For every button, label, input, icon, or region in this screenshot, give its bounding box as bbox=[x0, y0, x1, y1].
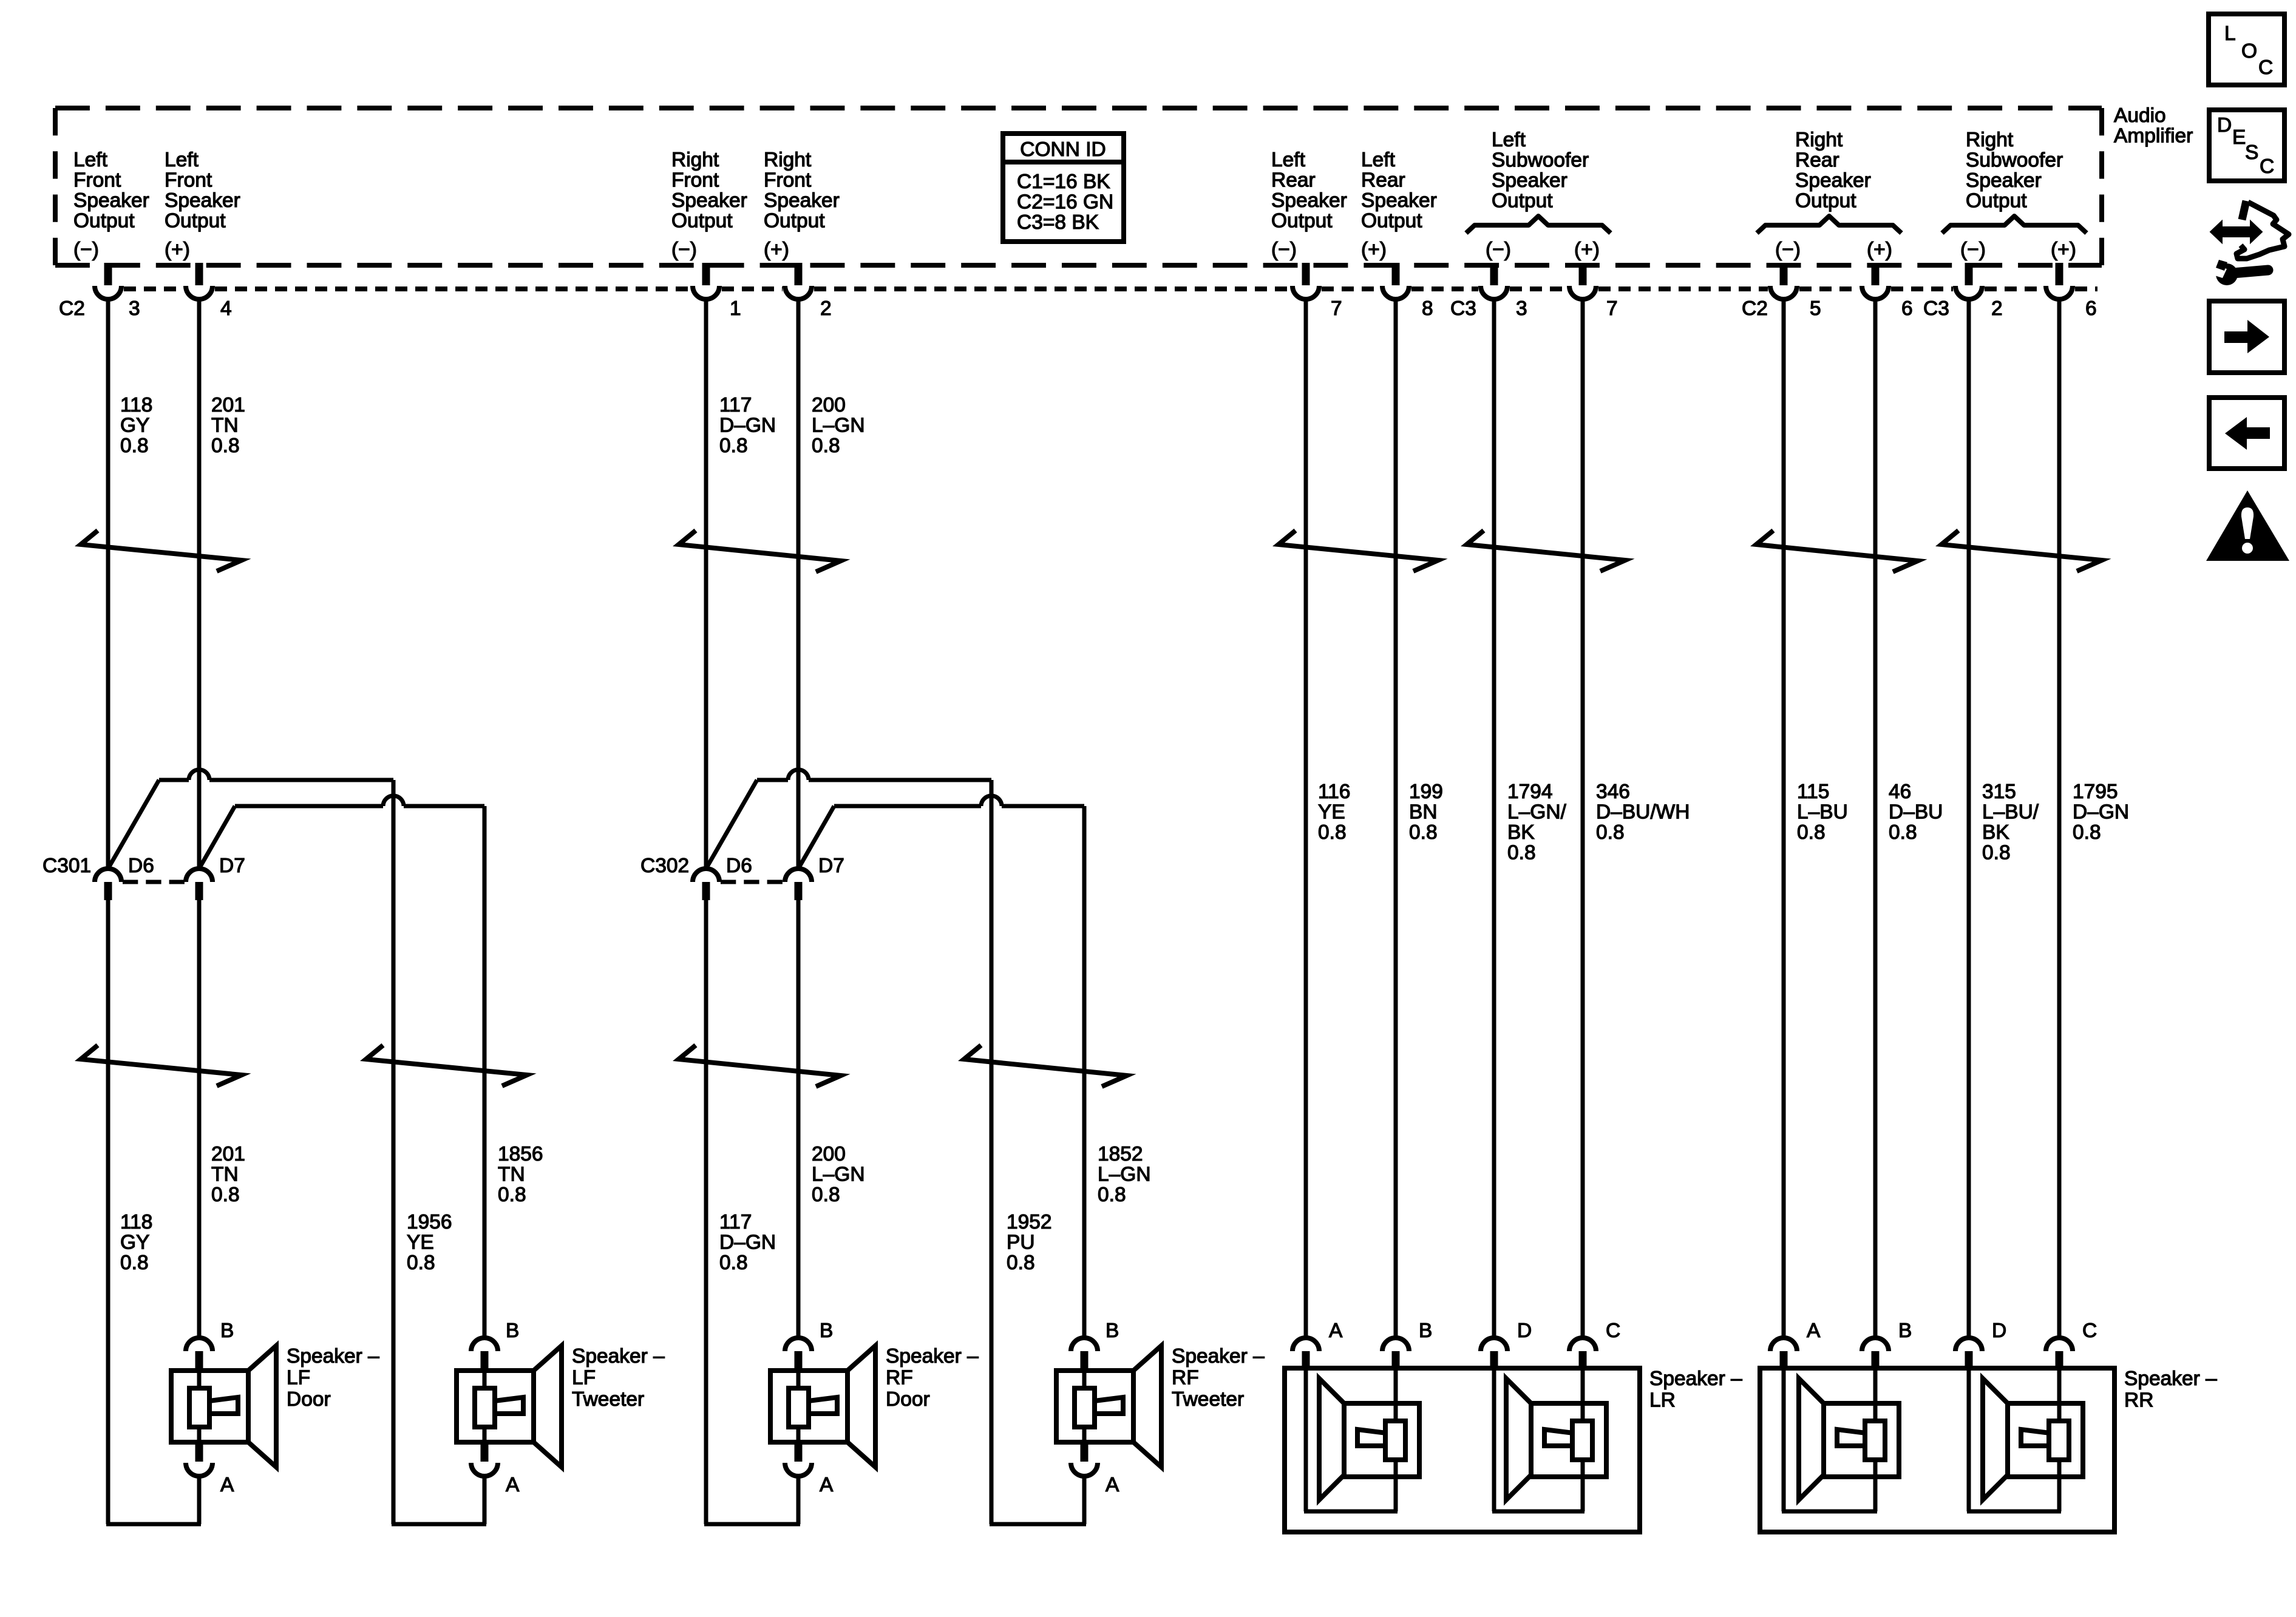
svg-text:0.8: 0.8 bbox=[1889, 821, 1917, 844]
svg-text:Left: Left bbox=[1271, 149, 1306, 171]
svg-text:Speaker: Speaker bbox=[1966, 169, 2042, 192]
svg-text:115: 115 bbox=[1797, 781, 1829, 803]
svg-text:200: 200 bbox=[812, 394, 846, 416]
svg-text:RF: RF bbox=[1172, 1367, 1199, 1389]
svg-text:0.8: 0.8 bbox=[812, 435, 840, 457]
svg-text:GY: GY bbox=[120, 415, 149, 437]
svg-text:(+): (+) bbox=[1867, 239, 1892, 261]
svg-text:Speaker –: Speaker – bbox=[572, 1345, 665, 1368]
svg-text:Left: Left bbox=[1361, 149, 1396, 171]
svg-text:0.8: 0.8 bbox=[211, 435, 240, 457]
svg-text:3: 3 bbox=[1516, 297, 1527, 320]
svg-text:118: 118 bbox=[120, 1211, 152, 1233]
svg-text:D: D bbox=[2217, 114, 2232, 137]
svg-text:D–BU: D–BU bbox=[1889, 801, 1943, 824]
svg-text:Speaker –: Speaker – bbox=[1649, 1368, 1742, 1390]
svg-text:C302: C302 bbox=[640, 855, 689, 877]
svg-text:0.8: 0.8 bbox=[498, 1184, 526, 1206]
svg-text:1795: 1795 bbox=[2073, 781, 2118, 803]
svg-text:Speaker: Speaker bbox=[764, 189, 840, 212]
svg-text:5: 5 bbox=[1810, 297, 1821, 320]
svg-text:118: 118 bbox=[120, 394, 152, 416]
svg-text:D6: D6 bbox=[726, 855, 752, 877]
svg-text:Right: Right bbox=[1966, 129, 2014, 151]
svg-text:Left: Left bbox=[1492, 129, 1526, 151]
svg-text:(+): (+) bbox=[2051, 239, 2076, 261]
svg-text:116: 116 bbox=[1318, 781, 1350, 803]
svg-text:L–GN: L–GN bbox=[812, 1164, 865, 1186]
svg-text:Speaker –: Speaker – bbox=[287, 1345, 379, 1368]
svg-text:201: 201 bbox=[211, 1143, 245, 1165]
svg-text:C2=16 GN: C2=16 GN bbox=[1017, 191, 1113, 214]
svg-text:Output: Output bbox=[671, 210, 733, 232]
svg-text:0.8: 0.8 bbox=[1007, 1252, 1035, 1274]
svg-text:Output: Output bbox=[764, 210, 825, 232]
svg-text:C3=8 BK: C3=8 BK bbox=[1017, 211, 1099, 234]
svg-text:D: D bbox=[1992, 1320, 2006, 1342]
svg-text:A: A bbox=[820, 1474, 834, 1496]
svg-text:L–GN: L–GN bbox=[1098, 1164, 1151, 1186]
svg-text:(−): (−) bbox=[1486, 239, 1511, 261]
svg-text:0.8: 0.8 bbox=[407, 1252, 435, 1274]
svg-text:(+): (+) bbox=[764, 239, 789, 261]
svg-text:C: C bbox=[2258, 56, 2273, 79]
svg-text:BK: BK bbox=[1507, 821, 1535, 844]
svg-text:Output: Output bbox=[1492, 190, 1553, 212]
svg-text:Subwoofer: Subwoofer bbox=[1492, 149, 1589, 172]
svg-text:C3: C3 bbox=[1923, 297, 1949, 320]
svg-text:B: B bbox=[1106, 1320, 1119, 1342]
svg-text:Speaker: Speaker bbox=[1361, 189, 1437, 212]
svg-text:2: 2 bbox=[1991, 297, 2003, 320]
svg-text:TN: TN bbox=[498, 1164, 525, 1186]
svg-text:200: 200 bbox=[812, 1143, 846, 1165]
svg-text:1794: 1794 bbox=[1507, 781, 1553, 803]
svg-text:B: B bbox=[220, 1320, 234, 1342]
svg-text:A: A bbox=[1106, 1474, 1119, 1496]
svg-text:7: 7 bbox=[1606, 297, 1618, 320]
svg-text:B: B bbox=[506, 1320, 519, 1342]
svg-text:PU: PU bbox=[1007, 1232, 1035, 1254]
svg-text:Right: Right bbox=[671, 149, 719, 171]
svg-text:RF: RF bbox=[886, 1367, 913, 1389]
svg-text:D6: D6 bbox=[128, 855, 154, 877]
svg-text:D7: D7 bbox=[818, 855, 844, 877]
svg-text:A: A bbox=[1807, 1320, 1821, 1342]
svg-text:(−): (−) bbox=[1775, 239, 1801, 261]
svg-text:C301: C301 bbox=[42, 855, 91, 877]
svg-text:A: A bbox=[1329, 1320, 1343, 1342]
svg-text:(−): (−) bbox=[1271, 239, 1297, 261]
svg-text:Subwoofer: Subwoofer bbox=[1966, 149, 2063, 172]
svg-text:0.8: 0.8 bbox=[120, 1252, 149, 1274]
svg-text:L–BU: L–BU bbox=[1797, 801, 1848, 824]
svg-text:Speaker: Speaker bbox=[1271, 189, 1347, 212]
svg-text:0.8: 0.8 bbox=[719, 435, 748, 457]
svg-text:Output: Output bbox=[1795, 190, 1856, 212]
svg-text:(+): (+) bbox=[1574, 239, 1600, 261]
svg-text:117: 117 bbox=[719, 1211, 752, 1233]
svg-text:D–GN: D–GN bbox=[719, 415, 776, 437]
svg-text:(−): (−) bbox=[1960, 239, 1986, 261]
svg-text:D: D bbox=[1517, 1320, 1532, 1342]
svg-text:Speaker –: Speaker – bbox=[1172, 1345, 1265, 1368]
svg-text:(−): (−) bbox=[73, 239, 99, 261]
svg-text:D–GN: D–GN bbox=[2073, 801, 2129, 824]
svg-text:C2: C2 bbox=[59, 297, 85, 320]
svg-text:Front: Front bbox=[764, 169, 812, 192]
svg-text:1956: 1956 bbox=[407, 1211, 452, 1233]
svg-text:Door: Door bbox=[886, 1388, 930, 1411]
svg-text:0.8: 0.8 bbox=[1596, 821, 1625, 844]
svg-text:6: 6 bbox=[1901, 297, 1913, 320]
svg-text:Amplifier: Amplifier bbox=[2114, 125, 2193, 147]
svg-text:LF: LF bbox=[572, 1367, 596, 1389]
svg-text:YE: YE bbox=[407, 1232, 434, 1254]
svg-text:(−): (−) bbox=[671, 239, 697, 261]
svg-text:C: C bbox=[1606, 1320, 1620, 1342]
svg-text:346: 346 bbox=[1596, 781, 1630, 803]
svg-text:Right: Right bbox=[1795, 129, 1843, 151]
svg-text:0.8: 0.8 bbox=[2073, 821, 2101, 844]
svg-text:0.8: 0.8 bbox=[812, 1184, 840, 1206]
svg-text:Left: Left bbox=[73, 149, 108, 171]
svg-text:TN: TN bbox=[211, 415, 239, 437]
svg-text:Front: Front bbox=[73, 169, 121, 192]
svg-text:Speaker –: Speaker – bbox=[886, 1345, 979, 1368]
svg-text:1: 1 bbox=[730, 297, 741, 320]
svg-text:C3: C3 bbox=[1450, 297, 1476, 320]
svg-text:B: B bbox=[1898, 1320, 1912, 1342]
svg-text:TN: TN bbox=[211, 1164, 239, 1186]
svg-text:Output: Output bbox=[1271, 210, 1333, 232]
svg-text:3: 3 bbox=[129, 297, 140, 320]
svg-text:A: A bbox=[506, 1474, 520, 1496]
svg-text:C: C bbox=[2082, 1320, 2097, 1342]
svg-text:46: 46 bbox=[1889, 781, 1911, 803]
svg-text:0.8: 0.8 bbox=[1797, 821, 1826, 844]
svg-text:(+): (+) bbox=[1361, 239, 1387, 261]
svg-text:L–BU/: L–BU/ bbox=[1982, 801, 2039, 824]
svg-text:C2: C2 bbox=[1742, 297, 1768, 320]
svg-text:0.8: 0.8 bbox=[120, 435, 149, 457]
svg-text:Output: Output bbox=[1966, 190, 2027, 212]
svg-text:0.8: 0.8 bbox=[1982, 842, 2011, 864]
svg-text:C1=16 BK: C1=16 BK bbox=[1017, 171, 1110, 193]
svg-text:Tweeter: Tweeter bbox=[572, 1388, 644, 1411]
svg-text:8: 8 bbox=[1422, 297, 1433, 320]
svg-text:D–GN: D–GN bbox=[719, 1232, 776, 1254]
svg-text:201: 201 bbox=[211, 394, 245, 416]
svg-text:CONN ID: CONN ID bbox=[1020, 138, 1106, 161]
svg-text:C: C bbox=[2260, 155, 2274, 178]
svg-text:Rear: Rear bbox=[1271, 169, 1316, 192]
svg-text:7: 7 bbox=[1331, 297, 1342, 320]
svg-text:1852: 1852 bbox=[1098, 1143, 1143, 1165]
svg-text:Speaker: Speaker bbox=[165, 189, 240, 212]
svg-text:Tweeter: Tweeter bbox=[1172, 1388, 1244, 1411]
svg-text:Left: Left bbox=[165, 149, 199, 171]
svg-text:2: 2 bbox=[820, 297, 832, 320]
svg-text:RR: RR bbox=[2124, 1389, 2153, 1412]
svg-text:Speaker –: Speaker – bbox=[2124, 1368, 2217, 1390]
svg-text:0.8: 0.8 bbox=[1318, 821, 1347, 844]
svg-text:Speaker: Speaker bbox=[671, 189, 747, 212]
svg-text:(+): (+) bbox=[165, 239, 190, 261]
svg-text:L–GN/: L–GN/ bbox=[1507, 801, 1567, 824]
svg-text:0.8: 0.8 bbox=[1098, 1184, 1126, 1206]
svg-text:D–BU/WH: D–BU/WH bbox=[1596, 801, 1690, 824]
svg-text:0.8: 0.8 bbox=[1507, 842, 1536, 864]
svg-text:4: 4 bbox=[220, 297, 232, 320]
svg-text:Speaker: Speaker bbox=[73, 189, 149, 212]
svg-text:0.8: 0.8 bbox=[211, 1184, 240, 1206]
svg-text:S: S bbox=[2245, 141, 2258, 164]
svg-text:A: A bbox=[220, 1474, 234, 1496]
svg-text:1856: 1856 bbox=[498, 1143, 543, 1165]
svg-text:L–GN: L–GN bbox=[812, 415, 865, 437]
svg-text:Speaker: Speaker bbox=[1795, 169, 1871, 192]
svg-text:0.8: 0.8 bbox=[1409, 821, 1438, 844]
svg-text:L: L bbox=[2224, 22, 2236, 45]
svg-text:1952: 1952 bbox=[1007, 1211, 1052, 1233]
svg-text:Front: Front bbox=[671, 169, 719, 192]
svg-text:B: B bbox=[1419, 1320, 1432, 1342]
svg-text:Front: Front bbox=[165, 169, 212, 192]
svg-text:Rear: Rear bbox=[1361, 169, 1405, 192]
svg-text:E: E bbox=[2232, 126, 2246, 149]
svg-text:117: 117 bbox=[719, 394, 752, 416]
svg-text:Audio: Audio bbox=[2114, 104, 2166, 127]
svg-text:Right: Right bbox=[764, 149, 812, 171]
svg-text:YE: YE bbox=[1318, 801, 1345, 824]
svg-text:LR: LR bbox=[1649, 1389, 1676, 1412]
svg-text:LF: LF bbox=[287, 1367, 310, 1389]
svg-text:Speaker: Speaker bbox=[1492, 169, 1567, 192]
svg-text:Rear: Rear bbox=[1795, 149, 1839, 172]
svg-text:315: 315 bbox=[1982, 781, 2016, 803]
svg-text:O: O bbox=[2241, 40, 2257, 63]
svg-text:199: 199 bbox=[1409, 781, 1443, 803]
svg-text:0.8: 0.8 bbox=[719, 1252, 748, 1274]
svg-text:6: 6 bbox=[2085, 297, 2097, 320]
svg-text:Output: Output bbox=[73, 210, 135, 232]
svg-text:BK: BK bbox=[1982, 821, 2009, 844]
svg-text:B: B bbox=[820, 1320, 833, 1342]
svg-text:D7: D7 bbox=[219, 855, 245, 877]
svg-text:GY: GY bbox=[120, 1232, 149, 1254]
svg-text:Output: Output bbox=[1361, 210, 1422, 232]
svg-text:BN: BN bbox=[1409, 801, 1438, 824]
svg-text:Output: Output bbox=[165, 210, 226, 232]
svg-text:Door: Door bbox=[287, 1388, 331, 1411]
